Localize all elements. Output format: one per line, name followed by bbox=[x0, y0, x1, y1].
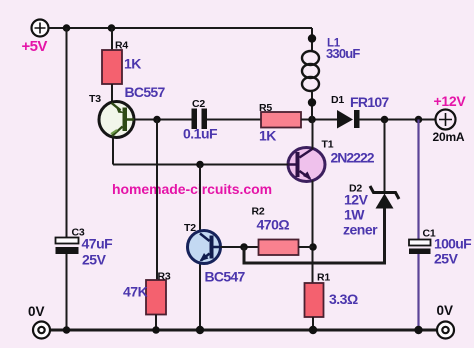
wire T3 collector lead bbox=[112, 137, 114, 165]
svg-text:homemade-circuits.com: homemade-circuits.com bbox=[112, 181, 272, 197]
node T3 base junction bbox=[153, 116, 161, 124]
svg-text:FR107: FR107 bbox=[350, 94, 389, 110]
node R1 ground bbox=[309, 326, 317, 334]
svg-text:100uF: 100uF bbox=[434, 236, 472, 252]
svg-text:BC547: BC547 bbox=[205, 269, 246, 285]
wire zener bottom L bbox=[244, 208, 385, 263]
wire R3 branch vertical bbox=[156, 120, 158, 281]
resistor R4 bbox=[102, 50, 122, 84]
wire D1 to +12V terminal bbox=[360, 119, 437, 121]
svg-text:47uF: 47uF bbox=[82, 236, 114, 252]
node top-left junction bbox=[63, 24, 71, 32]
terminal +12V bbox=[436, 110, 456, 130]
terminal 0V left bbox=[33, 322, 50, 339]
wire C1 top lead bbox=[417, 120, 419, 240]
wire C2 to R5 bbox=[207, 119, 261, 121]
resistor R1 bbox=[305, 283, 324, 317]
wire R2 right lead bbox=[299, 246, 314, 248]
node L1/T1 junction bbox=[308, 116, 316, 124]
svg-text:zener: zener bbox=[343, 222, 378, 238]
svg-text:BC557: BC557 bbox=[125, 84, 166, 100]
svg-text:330uF: 330uF bbox=[326, 46, 360, 61]
node R3 ground bbox=[152, 326, 160, 334]
capacitor C3 bbox=[56, 238, 79, 255]
wire L1 bottom lead bbox=[311, 91, 313, 120]
svg-text:3.3Ω: 3.3Ω bbox=[329, 291, 358, 307]
svg-text:R5: R5 bbox=[259, 102, 272, 114]
svg-text:1K: 1K bbox=[259, 128, 276, 144]
wire T3 base to C2 bbox=[134, 119, 192, 121]
node ground left bbox=[63, 326, 71, 334]
svg-text:20mA: 20mA bbox=[433, 130, 465, 144]
wire left rail lower bbox=[66, 254, 68, 331]
svg-text:T3: T3 bbox=[89, 93, 101, 105]
transistor T3 bbox=[99, 102, 134, 138]
node L1 bottom bbox=[308, 98, 316, 106]
svg-text:12V: 12V bbox=[344, 192, 369, 208]
diode D2 zener bbox=[370, 186, 399, 209]
node T2 collector junction bbox=[196, 161, 204, 169]
transistor T1 bbox=[288, 148, 325, 182]
wire T2 base to R2 bbox=[221, 246, 259, 248]
capacitor C1 bbox=[409, 240, 431, 255]
node T2 emitter ground bbox=[196, 326, 204, 334]
svg-text:47K: 47K bbox=[123, 284, 148, 300]
svg-text:1W: 1W bbox=[344, 207, 365, 223]
svg-text:T2: T2 bbox=[184, 222, 196, 234]
wire R4 top lead bbox=[111, 28, 113, 50]
wire L1 top lead bbox=[311, 28, 313, 50]
svg-text:470Ω: 470Ω bbox=[257, 217, 290, 233]
svg-text:1K: 1K bbox=[124, 56, 141, 72]
svg-text:R3: R3 bbox=[158, 271, 171, 283]
wire zener top lead bbox=[384, 120, 386, 194]
svg-text:+12V: +12V bbox=[434, 93, 467, 109]
wire R1 bottom lead bbox=[312, 317, 314, 330]
node L1 top bbox=[308, 34, 316, 42]
svg-text:2N2222: 2N2222 bbox=[331, 150, 375, 166]
wire R3 bottom lead bbox=[155, 315, 157, 331]
wire T2 collector bbox=[199, 165, 201, 233]
wire top rail bbox=[49, 27, 313, 29]
svg-text:0V: 0V bbox=[437, 303, 454, 318]
resistor R5 bbox=[261, 112, 301, 128]
node C1 top bbox=[415, 116, 423, 124]
wire T1 collector bbox=[312, 120, 314, 150]
terminal +5V bbox=[32, 20, 49, 37]
inductor L1 bbox=[302, 51, 319, 91]
wire C1 bottom lead bbox=[417, 254, 419, 330]
svg-text:C2: C2 bbox=[192, 98, 205, 110]
wire left rail upper bbox=[66, 28, 68, 238]
wire T1 emitter bbox=[312, 181, 314, 284]
transistor T2 bbox=[188, 231, 221, 264]
diode D1 bbox=[337, 110, 360, 129]
resistor R2 bbox=[259, 240, 299, 256]
resistor R3 bbox=[146, 280, 166, 315]
svg-text:+5V: +5V bbox=[22, 38, 48, 55]
wire base bus to T1 bbox=[113, 164, 288, 166]
wire bottom rail bbox=[50, 329, 437, 332]
svg-text:25V: 25V bbox=[82, 252, 107, 268]
node C1 ground bbox=[414, 326, 422, 334]
wire R4 bottom lead bbox=[111, 84, 113, 102]
svg-text:R1: R1 bbox=[317, 272, 330, 284]
svg-text:25V: 25V bbox=[434, 251, 459, 267]
svg-text:0.1uF: 0.1uF bbox=[183, 126, 218, 142]
wire R5 to D1 bbox=[301, 119, 337, 121]
node zener top bbox=[381, 116, 389, 124]
node R2-R1 junction bbox=[309, 243, 317, 251]
node R4 top junction bbox=[108, 24, 116, 32]
terminal 0V right bbox=[437, 322, 454, 339]
svg-text:R4: R4 bbox=[115, 40, 128, 52]
svg-text:D1: D1 bbox=[331, 94, 344, 106]
node T2 base junction bbox=[240, 243, 248, 251]
capacitor C2 bbox=[192, 109, 208, 130]
wire T2 emitter bbox=[199, 262, 201, 330]
svg-text:0V: 0V bbox=[28, 304, 45, 319]
